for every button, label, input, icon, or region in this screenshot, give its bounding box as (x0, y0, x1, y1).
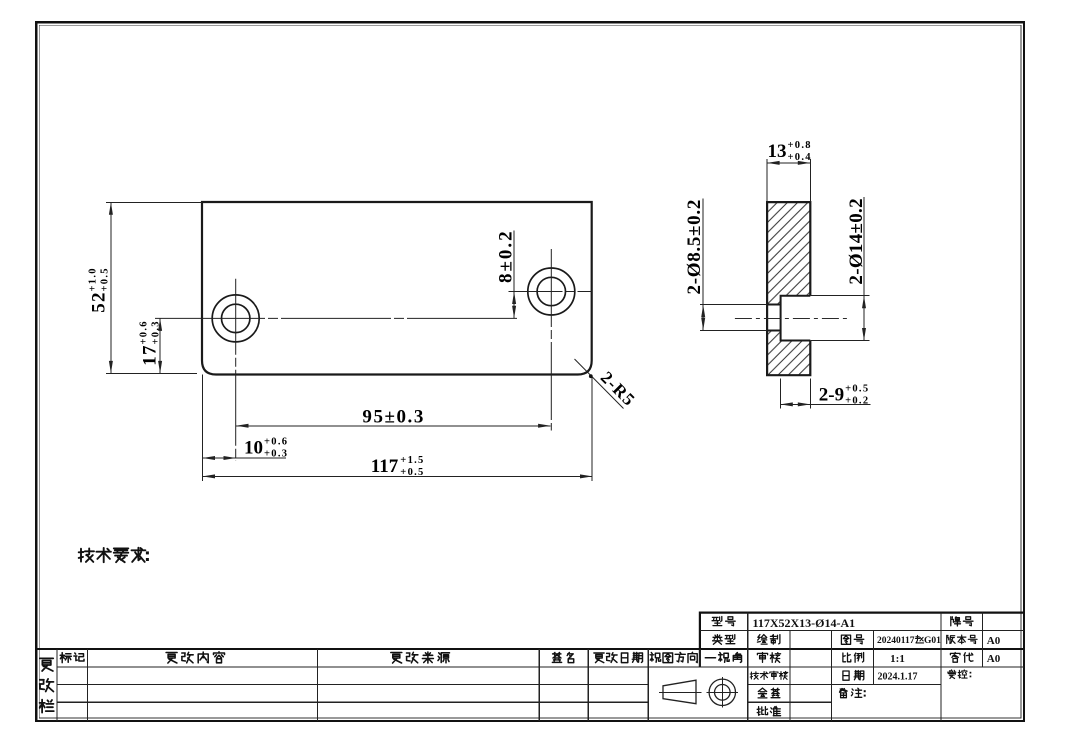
svg-text:2-9: 2-9 (819, 385, 844, 406)
svg-text:52: 52 (89, 291, 110, 312)
svg-text:8±0.2: 8±0.2 (496, 229, 517, 283)
svg-text:13: 13 (768, 141, 787, 162)
svg-text:+1.5: +1.5 (400, 455, 424, 466)
svg-text:10: 10 (244, 438, 263, 459)
svg-text:+0.3: +0.3 (151, 320, 162, 344)
svg-text:17: 17 (140, 344, 161, 365)
svg-text:+0.2: +0.2 (845, 396, 869, 407)
svg-text:+0.5: +0.5 (400, 467, 424, 478)
svg-text:2-Ø8.5±0.2: 2-Ø8.5±0.2 (684, 199, 705, 295)
svg-text:+0.6: +0.6 (264, 436, 288, 447)
svg-text:+0.4: +0.4 (788, 152, 812, 163)
svg-text:+0.8: +0.8 (788, 140, 812, 151)
svg-text:A0: A0 (987, 635, 1001, 647)
svg-text:+0.5: +0.5 (845, 384, 869, 395)
svg-text:+0.3: +0.3 (264, 448, 288, 459)
svg-text:20240117: 20240117 (877, 636, 915, 646)
svg-text:117: 117 (371, 456, 399, 477)
svg-text:2-Ø14±0.2: 2-Ø14±0.2 (846, 198, 867, 284)
svg-text:117X52X13-Ø14-A1: 117X52X13-Ø14-A1 (753, 616, 856, 630)
svg-text:+0.6: +0.6 (139, 320, 150, 344)
svg-text:1:1: 1:1 (890, 653, 905, 665)
svg-text:A0: A0 (987, 653, 1001, 665)
svg-text:2024.1.17: 2024.1.17 (878, 672, 918, 683)
svg-text:G01: G01 (924, 636, 941, 646)
svg-text:+0.5: +0.5 (100, 267, 111, 291)
svg-text:95±0.3: 95±0.3 (362, 407, 424, 428)
svg-text:+1.0: +1.0 (88, 267, 99, 291)
